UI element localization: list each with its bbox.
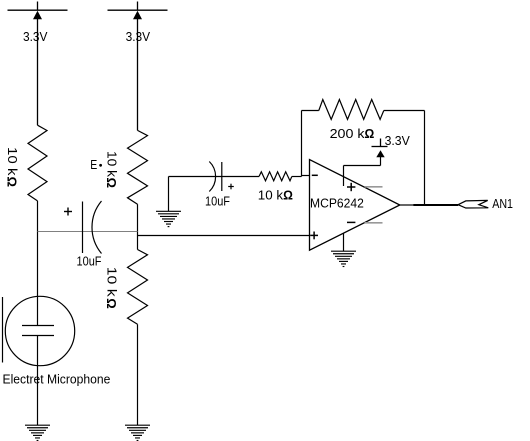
wire column B: R2 to R3 junction: [137, 204, 139, 249]
feedback right vertical wire: [424, 111, 426, 206]
power supply 3.3V (op-amp): [372, 146, 388, 148]
svg-text:3.3V: 3.3V: [385, 133, 411, 148]
svg-text:E: E: [90, 157, 97, 172]
capacitor C2 10uF (input coupling): [209, 162, 222, 192]
svg-text:Electret Microphone: Electret Microphone: [3, 371, 111, 386]
svg-text:10 k: 10 k: [5, 147, 20, 176]
wire output thick: [413, 204, 458, 206]
resistor R3 10k (divider bottom, column B): [128, 250, 148, 325]
wire column B: R3 to ground: [137, 324, 139, 425]
wire node to op-amp inverting input: [302, 175, 310, 177]
wire op-amp non-inverting input (row y=235.5): [138, 235, 310, 237]
op-amp pin stub gray bottom: [365, 222, 383, 224]
feedback top wires: [302, 110, 319, 112]
svg-text:10 k: 10 k: [258, 188, 284, 203]
svg-text:3.3V: 3.3V: [23, 29, 48, 44]
electret microphone MK1: [5, 296, 74, 365]
power supply 3.3V rail B: [108, 2, 168, 131]
svg-text:10 k: 10 k: [105, 267, 120, 298]
ground (column B bottom): [125, 425, 150, 440]
resistor R4 10k (input, horizontal): [259, 172, 292, 181]
svg-text:10uF: 10uF: [77, 254, 102, 269]
resistor R1 10k (mic bias, column A): [28, 125, 47, 201]
op-amp pin stub gray top: [365, 186, 383, 188]
arrow to 3.3V: [376, 150, 384, 157]
capacitor C1 10uF (on gray wire): [83, 201, 102, 254]
wire mic node (gray, row y=231): [38, 231, 138, 233]
connector AN1: [458, 200, 488, 208]
wire mic bottom plate to ground: [37, 336, 39, 426]
wire R4 to feedback node: [292, 176, 302, 178]
ground (C2 return): [156, 211, 181, 226]
plus C1: [64, 208, 72, 216]
svg-text:MCP6242: MCP6242: [310, 195, 364, 210]
power supply 3.3V rail A: [8, 2, 68, 126]
svg-text:Ω: Ω: [4, 177, 19, 188]
svg-text:Ω: Ω: [365, 126, 375, 141]
svg-text:10 k: 10 k: [104, 151, 119, 178]
op-amp non-inverting input plus: [310, 232, 318, 240]
plus C2: [228, 184, 234, 190]
op-amp inverting input minus: [312, 174, 318, 176]
svg-text:200 k: 200 k: [330, 126, 365, 141]
op-amp V+ pin plus: [347, 183, 355, 191]
svg-text:Ω: Ω: [104, 178, 119, 189]
wire V+ supply: [344, 157, 381, 186]
resistor R2 10k (divider top, column B): [128, 130, 148, 204]
ground (op-amp): [331, 251, 356, 266]
wire ground corner to C2: [169, 176, 260, 178]
ground (column A bottom): [25, 425, 50, 440]
svg-text:Ω: Ω: [104, 298, 119, 309]
wire column A: R1 to mic: [37, 201, 39, 326]
svg-text:10uF: 10uF: [205, 193, 230, 208]
feedback left vertical wire: [301, 111, 303, 177]
resistor R5 200k (feedback): [319, 100, 384, 120]
svg-text:Ω: Ω: [283, 188, 293, 203]
wire C2 left plate to ground: [168, 177, 170, 212]
op-amp U1 triangle: [310, 160, 400, 251]
wire op-amp V- to ground: [343, 233, 345, 251]
op-amp V- pin minus: [347, 221, 355, 223]
svg-text:3.3V: 3.3V: [126, 29, 151, 44]
wire output thin: [400, 204, 414, 206]
svg-text:AN1: AN1: [492, 196, 513, 211]
